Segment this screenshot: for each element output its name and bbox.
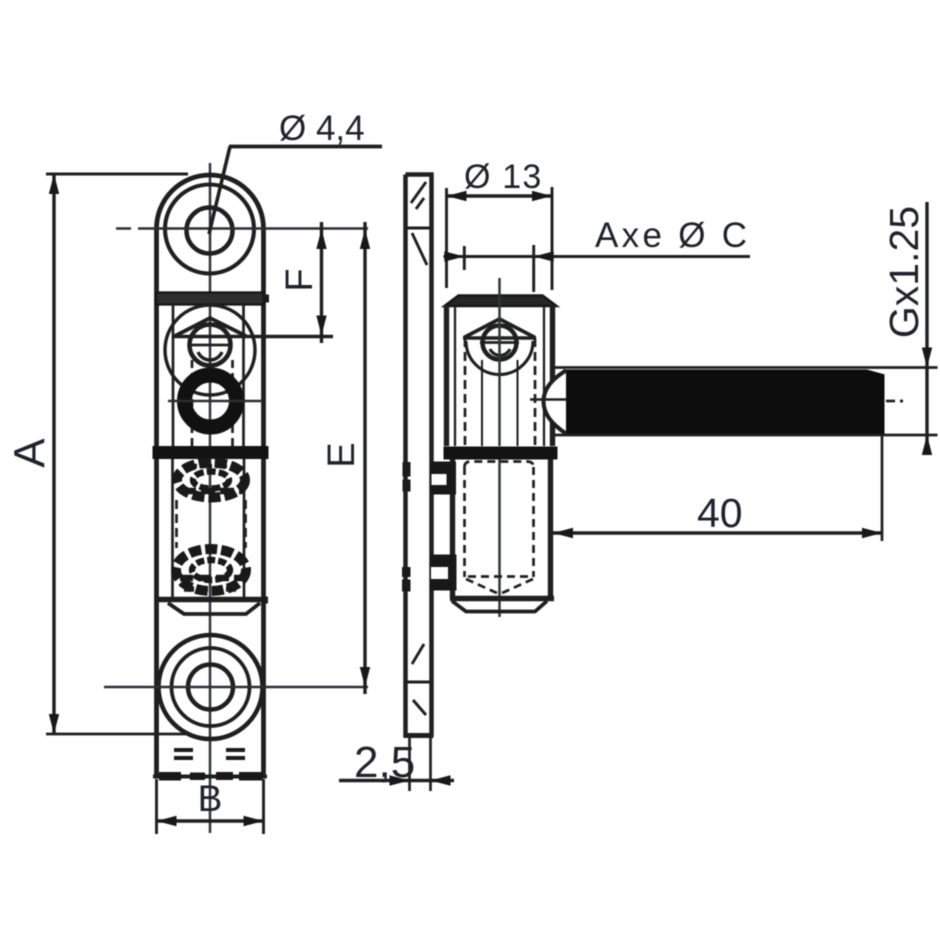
dimension F line xyxy=(320,222,323,343)
node: screw tip ticks on plate left edge xyxy=(402,462,411,592)
dimension B line with arrows xyxy=(157,819,264,822)
wire: hidden hole dashed lines upper xyxy=(191,360,194,446)
node: countersink circle front view xyxy=(165,305,255,395)
dimension A extension lines xyxy=(46,172,188,175)
dimension Axe ØC leader line xyxy=(444,255,751,258)
svg-text:Ø 13: Ø 13 xyxy=(464,158,543,196)
dimension G x 1.25 line xyxy=(925,202,928,455)
node: thread runout wedge xyxy=(866,369,885,374)
node: top head ring circle xyxy=(165,185,254,274)
svg-text:40: 40 xyxy=(697,490,743,536)
node: bottom chamfer side view xyxy=(452,601,547,612)
node: top screw hole Ø4,4 xyxy=(187,208,233,254)
node: protruding screw head bump 1 xyxy=(431,462,457,495)
svg-text:A: A xyxy=(6,438,55,468)
node: black seal ring xyxy=(185,375,237,427)
svg-text:B: B xyxy=(198,778,223,819)
dimension 40 extension line xyxy=(881,434,884,541)
node: bottom screw hole xyxy=(188,665,233,710)
node: bottom chamfer front view xyxy=(168,603,260,614)
wire: inner side walls lower barrel xyxy=(171,459,174,600)
wire: thread bore hidden lines upper barrel xyxy=(464,338,467,446)
wire: bottom hole horizontal centerline xyxy=(104,686,368,689)
dimension E line xyxy=(363,222,366,694)
node: rod dome end xyxy=(544,371,567,434)
node: bottom head outer circle xyxy=(159,635,263,739)
node: lower barrel bottom edge xyxy=(156,597,264,602)
wire: barrel vertical centerline xyxy=(498,278,501,446)
node: upper barrel top band with chamfer xyxy=(445,296,557,307)
node: knuckle junction band side view xyxy=(444,447,558,460)
wire: hidden bore in lower barrel xyxy=(465,462,534,594)
node: plate bottom edge with tick arrows xyxy=(153,774,267,778)
node: upper separation band xyxy=(156,293,264,305)
node: leaf plate side view outline xyxy=(406,175,432,736)
dimension 2,5 xyxy=(339,779,454,782)
node: protruding screw head bump 2 xyxy=(430,555,457,591)
node: countersunk screw roof lines xyxy=(175,318,246,336)
svg-text:Axe Ø C: Axe Ø C xyxy=(595,216,750,255)
node: front-view plate outline xyxy=(157,175,264,777)
wire: rod top/bottom extension lines xyxy=(553,366,938,369)
wire: leader line for Ø4,4 xyxy=(209,147,230,235)
node: threaded rod xyxy=(563,370,885,435)
svg-text:E: E xyxy=(321,442,363,467)
node: lower barrel walls xyxy=(450,460,455,600)
node: countersunk screw side view xyxy=(466,341,533,374)
svg-text:Ø 4,4: Ø 4,4 xyxy=(279,109,365,148)
wire: hidden hole dashed lines middle xyxy=(175,500,178,548)
node: lower nut blob (hidden screw head) xyxy=(176,549,246,591)
wire: top hole horizontal centerline xyxy=(138,227,368,230)
node: upper nut blob (hidden screw head) xyxy=(177,463,245,498)
dimension Ø13 line with arrows xyxy=(447,194,553,197)
wire: inner side walls upper barrel xyxy=(172,304,175,446)
node: upper barrel walls xyxy=(444,305,449,446)
svg-text:F: F xyxy=(279,268,321,291)
svg-text:2,5: 2,5 xyxy=(354,738,415,787)
dimension Ø13 extension lines xyxy=(445,188,448,288)
wire: rod centerline stub xyxy=(886,400,895,403)
node: equality marks xyxy=(174,750,245,758)
node: section hatch marks on plate xyxy=(407,182,430,715)
node: screw pilot circle xyxy=(190,325,231,366)
dimension A line xyxy=(52,174,55,734)
dimension 40 line xyxy=(553,531,882,534)
node: bottom head middle circle xyxy=(172,648,250,726)
node: knuckle junction band front view xyxy=(153,446,269,459)
wire: vertical centerline of front view xyxy=(209,163,212,833)
dimension B extension lines xyxy=(155,779,158,834)
node: lower barrel bottom edge side view xyxy=(450,596,554,601)
svg-text:Gx1.25: Gx1.25 xyxy=(881,206,927,338)
